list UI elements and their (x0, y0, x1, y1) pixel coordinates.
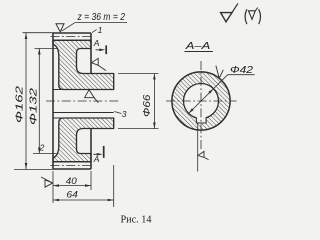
svg-text:A–A: A–A (185, 40, 211, 52)
svg-text:A: A (93, 38, 100, 48)
svg-text:40: 40 (66, 176, 78, 187)
svg-text:A: A (93, 154, 100, 164)
svg-text:Рис. 14: Рис. 14 (121, 215, 152, 226)
svg-text:Ф42: Ф42 (230, 65, 254, 76)
svg-text:Ф132: Ф132 (29, 87, 40, 125)
svg-text:Ф162: Ф162 (15, 85, 26, 123)
svg-text:Ф66: Ф66 (142, 94, 153, 117)
svg-text:1: 1 (98, 25, 103, 35)
svg-text:z = 36 m = 2: z = 36 m = 2 (77, 12, 126, 23)
svg-text:64: 64 (66, 190, 78, 201)
svg-text:2: 2 (39, 142, 45, 152)
svg-text:3: 3 (122, 109, 127, 119)
